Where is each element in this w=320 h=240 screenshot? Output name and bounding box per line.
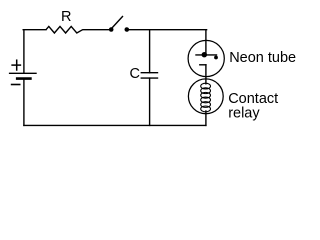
svg-text:R: R — [61, 9, 71, 25]
svg-text:C: C — [130, 66, 140, 82]
svg-text:relay: relay — [228, 106, 260, 122]
svg-text:Neon tube: Neon tube — [229, 50, 296, 66]
svg-text:Contact: Contact — [228, 91, 278, 107]
